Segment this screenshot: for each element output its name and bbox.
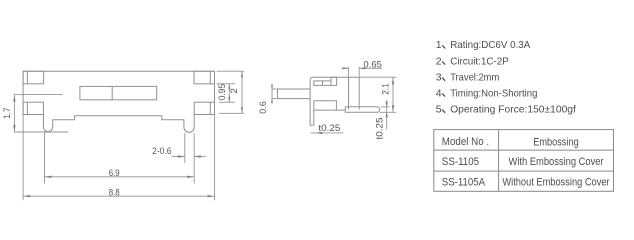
- svg-text:Model No .: Model No .: [442, 136, 489, 148]
- svg-text:Operating Force:150±100gf: Operating Force:150±100gf: [450, 104, 576, 116]
- svg-text:SS-1105: SS-1105: [442, 156, 479, 168]
- svg-text:1.7: 1.7: [2, 108, 13, 120]
- svg-text:With Embossing Cover: With Embossing Cover: [509, 156, 604, 168]
- svg-text:5: 5: [436, 104, 442, 116]
- svg-text:Rating:DC6V 0.3A: Rating:DC6V 0.3A: [450, 39, 530, 51]
- svg-text:8.8: 8.8: [109, 187, 120, 198]
- svg-text:2: 2: [436, 55, 442, 67]
- svg-text:4: 4: [436, 87, 442, 99]
- svg-text:t0.25: t0.25: [318, 123, 340, 134]
- svg-text:2.1: 2.1: [380, 83, 391, 95]
- svg-text:Without Embossing Cover: Without Embossing Cover: [502, 177, 609, 189]
- svg-text:Embossing: Embossing: [533, 136, 579, 148]
- svg-text:Timing:Non-Shorting: Timing:Non-Shorting: [450, 87, 537, 99]
- svg-text:2: 2: [229, 88, 240, 93]
- svg-text:0.65: 0.65: [363, 59, 382, 70]
- svg-text:6.9: 6.9: [109, 168, 120, 179]
- svg-text:Circuit:1C-2P: Circuit:1C-2P: [450, 55, 509, 67]
- svg-text:3: 3: [436, 72, 442, 84]
- svg-text:1: 1: [436, 39, 442, 51]
- svg-text:t0.25: t0.25: [374, 118, 385, 140]
- svg-text:0.6: 0.6: [258, 101, 269, 114]
- svg-text:0.95: 0.95: [217, 84, 228, 101]
- svg-text:Travel:2mm: Travel:2mm: [450, 72, 499, 84]
- svg-text:2-0.6: 2-0.6: [152, 146, 171, 157]
- svg-text:SS-1105A: SS-1105A: [442, 177, 486, 189]
